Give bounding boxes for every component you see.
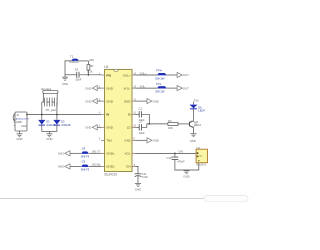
svg-text:U1: U1 <box>104 65 108 69</box>
svg-text:GND: GND <box>106 126 114 130</box>
wire pin13 row <box>136 87 178 89</box>
svg-text:GND: GND <box>16 137 22 141</box>
wire C2 to junction <box>142 124 147 127</box>
net flag GND pin2 <box>85 86 101 91</box>
capacitor C5 <box>172 157 179 159</box>
svg-text:10K: 10K <box>168 126 173 130</box>
svg-text:10uF: 10uF <box>75 77 81 81</box>
svg-text:LED4: LED4 <box>198 109 205 113</box>
svg-text:1N5819: 1N5819 <box>69 60 79 64</box>
capacitor bank C_pad2 <box>50 98 53 107</box>
svg-text:U3: U3 <box>197 146 201 150</box>
ground clamp diodes <box>46 132 52 142</box>
svg-text:C8: C8 <box>82 147 86 151</box>
capacitor C8 (blue chip) <box>82 151 89 154</box>
wire pin7 row <box>70 152 101 154</box>
wire to base resistor <box>147 123 168 125</box>
capacitor C4 (series in rail) <box>77 72 79 78</box>
svg-text:GND: GND <box>85 99 91 103</box>
svg-text:C4: C4 <box>75 68 79 72</box>
svg-text:10uF: 10uF <box>139 131 145 135</box>
svg-text:TP4+: TP4+ <box>156 69 163 73</box>
capacitor C9 (blue chip) <box>82 165 89 168</box>
ground under jack <box>16 134 22 141</box>
svg-text:C9: C9 <box>82 160 86 164</box>
node audio/cap left <box>41 114 43 116</box>
capacitor bank C_pad1 <box>45 98 48 107</box>
svg-text:GND: GND <box>106 99 114 103</box>
svg-text:T1: T1 <box>70 54 74 58</box>
ground under C7 <box>135 183 141 191</box>
svg-text:GNDL: GNDL <box>106 152 115 156</box>
wire jack ground leg <box>19 131 21 134</box>
svg-text:VOL+: VOL+ <box>123 73 131 77</box>
transistor Q1 <box>189 121 195 128</box>
svg-text:78L05-S: 78L05-S <box>196 162 206 166</box>
wire C7 bottom <box>137 176 139 183</box>
wire LED top <box>193 102 195 105</box>
wire C1 to junction <box>142 114 150 124</box>
net flag OUT1 <box>177 72 189 77</box>
svg-text:GND1: GND1 <box>106 165 115 169</box>
U1 pin stubs right <box>132 75 136 166</box>
svg-text:R4: R4 <box>168 119 172 123</box>
svg-text:GN2: GN2 <box>124 139 131 143</box>
junction node R1/rail <box>88 74 90 76</box>
svg-text:PW: PW <box>106 73 111 77</box>
net flag OUT2 <box>177 86 189 91</box>
ground under D1 leg <box>62 75 68 86</box>
svg-text:GND: GND <box>106 86 114 90</box>
wire C5 top lead <box>174 153 176 157</box>
svg-text:C10: C10 <box>167 156 172 160</box>
svg-text:SW2: SW2 <box>58 165 65 169</box>
net flag SW1 <box>58 151 70 156</box>
svg-text:GND: GND <box>135 187 141 191</box>
svg-text:IN: IN <box>106 113 109 117</box>
wire pin10 lead <box>136 126 140 128</box>
node C1/C2 junction <box>148 123 150 125</box>
power flag +5V <box>89 58 94 62</box>
svg-text:TP4-: TP4- <box>156 82 162 86</box>
wire pin8 row <box>70 165 101 167</box>
capacitor bank C_pad3 <box>55 98 58 107</box>
resistor R1 <box>87 61 90 75</box>
net flag GND pin9 <box>147 138 159 143</box>
U1 left pin labels <box>106 73 115 168</box>
wire R4 to Q1 base <box>178 123 190 125</box>
wire pin11 lead <box>136 113 140 115</box>
svg-text:VOL-: VOL- <box>123 86 130 90</box>
node jack out <box>26 114 28 116</box>
ground 5V rail <box>183 170 189 179</box>
resistor R4 <box>168 123 178 126</box>
svg-text:+5V: +5V <box>89 58 94 62</box>
svg-text:TN2: TN2 <box>106 139 112 143</box>
wire pin1 rail <box>65 74 101 76</box>
svg-text:22uF: 22uF <box>21 125 27 128</box>
wire clamp bottom rail <box>42 131 57 133</box>
op-amp U1 body <box>105 69 133 171</box>
svg-text:DNI.2W: DNI.2W <box>155 90 165 94</box>
jumper block <box>43 90 58 93</box>
ferrite TP1+ (blue chip) <box>157 73 166 75</box>
wire pin12 row <box>136 100 148 102</box>
svg-text:JM2-E: JM2-E <box>92 164 100 167</box>
net flag GND pin12 <box>147 99 159 104</box>
U1 right pin labels <box>123 73 132 168</box>
wire D1 left leg <box>65 61 71 75</box>
wire pin14 row <box>136 74 178 76</box>
wire pin9 row <box>136 139 148 141</box>
ferrite TP1- (blue chip) <box>157 86 166 88</box>
svg-text:5v: 5v <box>199 154 203 158</box>
diode D1 <box>72 59 89 61</box>
svg-text:GND: GND <box>85 86 91 90</box>
svg-text:5.1K: 5.1K <box>87 70 93 74</box>
connector J1 audio jack <box>13 112 27 131</box>
svg-text:470uF: 470uF <box>177 159 185 163</box>
svg-text:10dB: 10dB <box>16 121 22 124</box>
svg-text:9014: 9014 <box>195 123 201 127</box>
svg-text:GN: GN <box>126 165 131 169</box>
canvas bottom edge line <box>0 198 206 200</box>
svg-text:GND: GND <box>190 139 196 143</box>
capacitor C7 <box>135 174 142 177</box>
regulator U3 78L05 <box>196 149 207 163</box>
wire emitter down <box>193 128 195 134</box>
capacitor C1 <box>139 111 141 117</box>
svg-text:OUT: OUT <box>183 86 189 90</box>
svg-text:C2: C2 <box>139 120 143 124</box>
wire cap rail risers <box>42 102 57 115</box>
svg-text:GND: GND <box>46 137 52 141</box>
svg-text:5V0: 5V0 <box>178 149 183 153</box>
svg-text:C1: C1 <box>139 107 143 111</box>
svg-text:BL34119: BL34119 <box>105 173 118 177</box>
wire C5 bottom / gnd rail <box>175 159 199 170</box>
svg-text:DNI.2W: DNI.2W <box>155 76 165 80</box>
net flag GND pin5 <box>85 125 101 130</box>
U1 pin stubs left <box>101 75 105 166</box>
wire audio net <box>27 114 101 116</box>
svg-text:TP_pad: TP_pad <box>46 108 56 112</box>
wire D2 top leg <box>41 115 43 120</box>
svg-text:R1: R1 <box>90 64 94 68</box>
diode D3 <box>53 120 60 132</box>
svg-text:GND: GND <box>183 175 189 179</box>
svg-text:GND: GND <box>85 126 91 130</box>
node 5V junction <box>174 153 176 155</box>
diode D2 <box>38 120 45 132</box>
capacitor C2 <box>139 124 141 130</box>
svg-text:47uF: 47uF <box>142 175 148 179</box>
net flag GND pin3 <box>85 99 101 104</box>
svg-text:GND: GND <box>153 139 159 143</box>
svg-text:DNI-F3: DNI-F3 <box>81 155 90 159</box>
svg-text:SW1: SW1 <box>58 152 65 156</box>
svg-text:GND: GND <box>153 99 159 103</box>
U1 pin numbers right <box>133 71 136 166</box>
net flag SW2 <box>58 164 70 169</box>
node audio/cap right <box>56 114 58 116</box>
ground under Q1 <box>190 134 197 143</box>
wire pin VOL to regulator <box>136 152 197 154</box>
svg-text:DNI-F3: DNI-F3 <box>81 168 90 172</box>
U1 pin numbers left <box>99 71 101 166</box>
svg-text:VOL: VOL <box>124 152 130 156</box>
svg-text:P10: P10 <box>194 98 199 102</box>
wire pin8 to C7 <box>136 166 139 173</box>
wire LED to collector <box>193 109 195 121</box>
svg-text:JM1-T: JM1-T <box>92 151 100 154</box>
LED D6 <box>190 105 198 109</box>
wire jumper stubs <box>43 93 57 102</box>
scrollbar thumb <box>204 196 248 202</box>
wire D3 top leg <box>56 115 58 120</box>
svg-text:1N4148: 1N4148 <box>61 123 71 127</box>
svg-text:GND: GND <box>62 82 68 86</box>
svg-text:GND: GND <box>124 99 132 103</box>
svg-text:OUT: OUT <box>183 73 189 77</box>
